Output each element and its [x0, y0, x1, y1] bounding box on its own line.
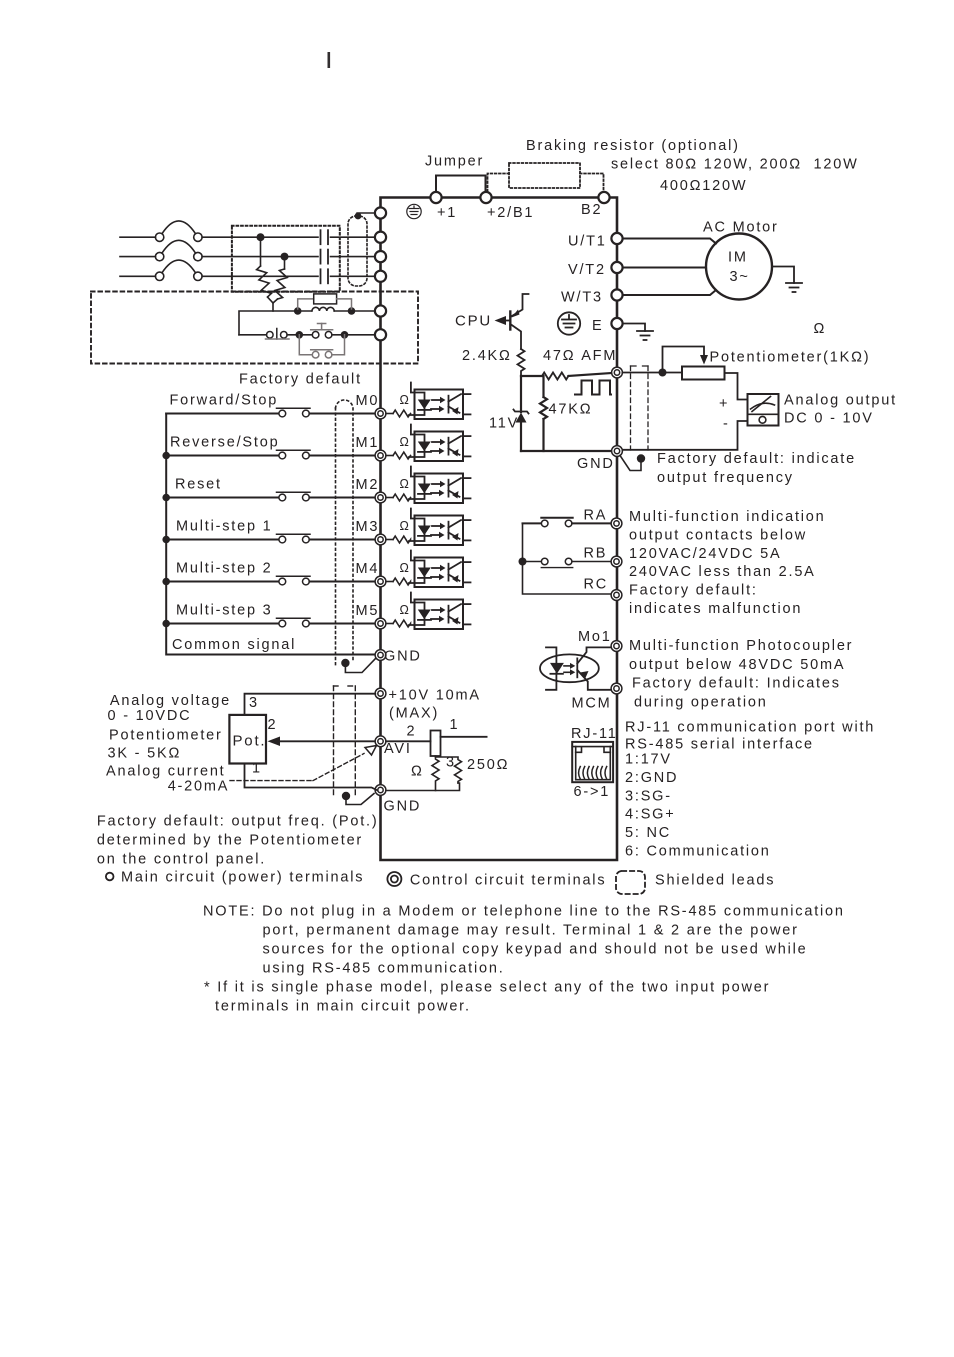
terminal M4 [375, 576, 386, 587]
wire [166, 623, 279, 625]
braking resistor leads [488, 174, 510, 194]
breaker pole L2 [155, 252, 163, 260]
svg-text:400Ω120W: 400Ω120W [660, 178, 747, 194]
svg-text:M2: M2 [356, 477, 380, 493]
terminal U/T1 [611, 233, 622, 244]
RB contact [523, 561, 542, 563]
optocoupler M0 [386, 383, 471, 420]
svg-text:AVI: AVI [384, 741, 412, 757]
contactor terminal lower [375, 329, 386, 340]
svg-text:U/T1: U/T1 [568, 234, 607, 250]
svg-text:Braking resistor (optional): Braking resistor (optional) [526, 138, 740, 154]
terminal E [611, 318, 622, 329]
wire [166, 455, 279, 457]
svg-text:sources for the optional copy: sources for the optional copy keypad and… [263, 942, 808, 958]
capacitor L3 [320, 269, 322, 283]
square wave [575, 381, 611, 395]
bottom wire to GND [386, 783, 460, 791]
svg-text:Common signal: Common signal [172, 637, 296, 653]
input phase line L3 [120, 275, 156, 277]
shield drain at GND right [620, 456, 641, 471]
svg-text:Ω: Ω [400, 477, 411, 491]
terminal RB [611, 556, 622, 567]
svg-text:Factory default: Factory default [239, 372, 362, 388]
svg-text:during operation: during operation [634, 694, 768, 710]
svg-text:Multi-step 3: Multi-step 3 [176, 603, 273, 619]
input phase line L2 [120, 256, 156, 258]
jumper wire [436, 176, 486, 192]
svg-text:Multi-step 2: Multi-step 2 [176, 561, 273, 577]
svg-text:RS-485 serial interface: RS-485 serial interface [625, 737, 814, 753]
svg-text:3:SG-: 3:SG- [625, 788, 672, 804]
svg-text:select 80Ω 120W, 200Ω 120W: select 80Ω 120W, 200Ω 120W [611, 157, 859, 173]
terminal RC [611, 590, 622, 601]
wire V/T2 to motor [623, 267, 706, 269]
terminal +1 [430, 192, 441, 203]
svg-text:M4: M4 [356, 561, 380, 577]
optocoupler M1 [386, 425, 471, 462]
svg-text:MCM: MCM [572, 696, 612, 712]
svg-text:Ω: Ω [400, 603, 411, 617]
svg-text:RB: RB [584, 546, 608, 562]
svg-text:RC: RC [584, 577, 609, 593]
svg-text:Reset: Reset [175, 477, 222, 493]
wire to terminal L3 [331, 275, 376, 277]
svg-text:using RS-485 communication.: using RS-485 communication. [263, 961, 505, 977]
svg-text:Forward/Stop: Forward/Stop [170, 393, 279, 409]
terminal M5 [375, 618, 386, 629]
svg-text:Factory default: indicate: Factory default: indicate [657, 451, 856, 467]
svg-text:Potentiometer(1KΩ): Potentiometer(1KΩ) [710, 350, 871, 366]
legend shielded leads [616, 871, 645, 894]
open arrow to AVI [365, 746, 377, 756]
AVI input resistor network [386, 740, 431, 742]
wire to terminal L2 [331, 256, 376, 258]
svg-text:4:SG+: 4:SG+ [625, 807, 676, 823]
svg-text:on the control panel.: on the control panel. [97, 852, 266, 868]
svg-text:3: 3 [249, 695, 259, 711]
svg-text:+1: +1 [437, 205, 457, 221]
photocoupler Mo1 [540, 654, 599, 682]
optocoupler M3 [386, 509, 471, 546]
shield tube analog [334, 686, 356, 798]
stop button NC [239, 334, 267, 336]
wire to capacitor L2 [202, 256, 318, 258]
svg-text:terminals in main circuit powe: terminals in main circuit power. [215, 999, 471, 1015]
capacitor L1 [320, 230, 322, 244]
svg-text:output below 48VDC 50mA: output below 48VDC 50mA [629, 657, 845, 673]
wire [166, 497, 279, 499]
svg-text:CPU: CPU [455, 313, 492, 330]
svg-text:Factory default: Indicates: Factory default: Indicates [632, 676, 841, 692]
contactor coil [312, 307, 334, 311]
svg-text:Mo1: Mo1 [578, 629, 612, 645]
svg-text:output contacts below: output contacts below [629, 527, 807, 543]
run junction dots [296, 331, 304, 339]
zener 11V [520, 376, 522, 412]
relay rail [523, 523, 612, 594]
input terminal L3 [375, 271, 386, 282]
wire to capacitor L3 [202, 275, 318, 277]
svg-text:11V: 11V [489, 416, 519, 432]
optocoupler M5 [386, 593, 471, 630]
rail junction dot [162, 452, 170, 460]
svg-text:Ω: Ω [400, 519, 411, 533]
svg-text:RA: RA [584, 508, 608, 524]
analog output meter [748, 394, 779, 426]
svg-text:E: E [592, 318, 603, 334]
switch M1 [279, 452, 286, 459]
svg-text:3: 3 [446, 755, 456, 771]
svg-text:GND: GND [384, 799, 422, 815]
wire to terminal L1 [331, 236, 376, 238]
braking resistor (optional) dotted box [509, 163, 580, 188]
wire [166, 581, 279, 583]
junction dot L1 [257, 233, 265, 241]
pot pin2 arrow wire from AVI [279, 740, 375, 742]
input phase line L1 [120, 236, 156, 238]
svg-text:Ω: Ω [400, 393, 411, 407]
terminal Mo1 [611, 641, 622, 652]
svg-text:6->1: 6->1 [574, 784, 611, 800]
rail junction dot [162, 536, 170, 544]
svg-text:(MAX): (MAX) [389, 706, 439, 722]
potentiometer wiper bracket [663, 347, 705, 373]
svg-text:NOTE: Do not plug in a Modem o: NOTE: Do not plug in a Modem or telephon… [203, 904, 845, 920]
capacitor L2 [320, 250, 322, 264]
wire meter to gnd [622, 421, 747, 450]
terminal M1 [375, 450, 386, 461]
svg-text:3~: 3~ [730, 269, 750, 285]
motor ground [772, 267, 794, 284]
svg-text:M0: M0 [356, 393, 380, 409]
rail junction dot [162, 578, 170, 586]
svg-text:-: - [723, 416, 730, 432]
Pot box [229, 715, 266, 764]
input terminal L1 [375, 232, 386, 243]
rail junction dot [162, 494, 170, 502]
transistor Q1 [509, 312, 511, 330]
terminal +2/B1 [480, 192, 491, 203]
svg-text:RJ-11: RJ-11 [571, 726, 618, 742]
svg-text:Ω: Ω [814, 321, 827, 337]
optocoupler M2 [386, 467, 471, 504]
svg-text:RJ-11 communication port with: RJ-11 communication port with [625, 720, 875, 736]
page mark bar [328, 52, 331, 68]
svg-text:47KΩ: 47KΩ [549, 402, 593, 418]
contactor terminal upper [375, 305, 386, 316]
E ground [623, 324, 645, 332]
coil junction dots [294, 307, 302, 315]
breaker pole L3 [155, 272, 163, 280]
svg-text:Jumper: Jumper [425, 154, 484, 170]
svg-text:port, permanent damage may res: port, permanent damage may result. Termi… [263, 923, 799, 939]
resistor 47K [542, 376, 544, 397]
svg-text:Multi-step 1: Multi-step 1 [176, 519, 273, 535]
factory default dash-dot box [91, 292, 418, 364]
svg-text:Pot.: Pot. [233, 733, 267, 750]
coil wire [239, 311, 312, 335]
wire to terminal [309, 497, 375, 499]
svg-text:4-20mA: 4-20mA [168, 779, 230, 795]
wire [166, 413, 279, 415]
terminal W/T3 [611, 289, 622, 300]
resistor to gnd (ohm) [432, 756, 439, 791]
svg-text:6: Communication: 6: Communication [625, 844, 771, 860]
svg-text:Analog output: Analog output [784, 393, 897, 409]
legend control circuit [387, 872, 401, 886]
EMI filter dotted box [232, 226, 340, 292]
svg-text:Ω: Ω [400, 561, 411, 575]
svg-text:output frequency: output frequency [657, 470, 794, 486]
PE symbol at E [558, 312, 580, 334]
switch M5 [279, 620, 286, 627]
svg-text:250Ω: 250Ω [467, 757, 509, 773]
svg-text:2:GND: 2:GND [625, 770, 678, 786]
wire to terminal [309, 581, 375, 583]
optocoupler M4 [386, 551, 471, 588]
run button NO [287, 334, 312, 336]
svg-text:IM: IM [728, 250, 748, 266]
wire to terminal [309, 413, 375, 415]
pot pin3 wire to +10V [245, 694, 376, 715]
svg-text:120VAC/24VDC 5A: 120VAC/24VDC 5A [629, 546, 781, 562]
varistor 1 [260, 237, 262, 266]
terminal MCM [611, 683, 622, 694]
switch M2 [279, 494, 286, 501]
junction dot L2 [281, 253, 289, 261]
switch M4 [279, 578, 286, 585]
shield dashes at AFM [631, 365, 649, 367]
inverter outline [381, 198, 618, 861]
svg-text:Factory default:: Factory default: [629, 583, 758, 599]
svg-text:Shielded leads: Shielded leads [655, 873, 775, 889]
svg-text:+2/B1: +2/B1 [487, 205, 534, 221]
wire to terminal [309, 623, 375, 625]
terminal M0 [375, 408, 386, 419]
wire to terminal [309, 455, 375, 457]
svg-text:Multi-function Photocoupler: Multi-function Photocoupler [629, 638, 853, 654]
resistor R box parallel to coil [298, 294, 352, 309]
varistor 2 [284, 257, 286, 269]
svg-text:GND: GND [384, 649, 422, 665]
svg-text:AC Motor: AC Motor [703, 220, 779, 236]
terminal V/T2 [611, 262, 622, 273]
terminal B2 [598, 192, 609, 203]
terminal AVI [375, 736, 386, 747]
svg-text:GND: GND [577, 456, 615, 472]
svg-text:Reverse/Stop: Reverse/Stop [170, 435, 279, 451]
svg-text:5: NC: 5: NC [625, 825, 671, 841]
svg-text:Control circuit terminals: Control circuit terminals [410, 873, 607, 889]
svg-text:DC 0 - 10V: DC 0 - 10V [784, 411, 874, 427]
svg-text:Potentiometer: Potentiometer [109, 728, 223, 744]
legend main circuit [106, 873, 114, 881]
svg-text:+10V 10mA: +10V 10mA [389, 688, 481, 704]
resistor 47ohm [542, 373, 568, 380]
svg-text:2.4KΩ: 2.4KΩ [462, 348, 512, 364]
svg-text:1: 1 [252, 761, 262, 777]
left rail [166, 414, 376, 655]
svg-text:1: 1 [450, 717, 460, 733]
svg-text:0 - 10VDC: 0 - 10VDC [108, 708, 192, 724]
terminal M2 [375, 492, 386, 503]
terminal GND (digital) [375, 650, 386, 661]
4-20mA dashed path [230, 780, 313, 782]
svg-text:M1: M1 [356, 435, 380, 451]
svg-text:B2: B2 [581, 202, 602, 218]
svg-text:* If it is single phase model,: * If it is single phase model, please se… [204, 980, 770, 996]
svg-text:indicates malfunction: indicates malfunction [629, 601, 802, 617]
svg-text:Ω: Ω [411, 764, 424, 780]
svg-text:+: + [719, 396, 729, 412]
svg-text:M3: M3 [356, 519, 380, 535]
shield drain common [341, 659, 349, 667]
terminal GND right [612, 446, 623, 457]
wire W/T3 to motor [623, 290, 716, 295]
svg-text:3K - 5KΩ: 3K - 5KΩ [108, 746, 182, 762]
wire pot to meter [725, 373, 748, 400]
svg-text:determined by the Potentiomete: determined by the Potentiometer [97, 833, 363, 849]
rail junction dot [162, 620, 170, 628]
RA contact [523, 522, 542, 524]
svg-text:Analog voltage: Analog voltage [110, 693, 231, 709]
wire to 47ohm [521, 375, 542, 377]
resistor 2.4K [518, 349, 525, 376]
terminal RA [611, 518, 622, 529]
wire U/T1 to motor [623, 239, 716, 244]
terminal GND (analog) [375, 785, 386, 796]
svg-text:Multi-function indication: Multi-function indication [629, 509, 826, 525]
aux contact branch [299, 335, 344, 358]
gnd return wire [521, 450, 612, 452]
varistor junction to coil wire [272, 303, 274, 311]
shielded tube at input [348, 216, 367, 286]
potentiometer body [682, 367, 725, 380]
PE symbol small [407, 204, 421, 218]
svg-text:Main circuit (power) terminals: Main circuit (power) terminals [121, 870, 364, 886]
input terminal L2 [375, 251, 386, 262]
svg-text:W/T3: W/T3 [561, 290, 603, 306]
svg-text:2: 2 [407, 724, 417, 740]
svg-text:1:17V: 1:17V [625, 752, 672, 768]
AC motor [706, 234, 772, 300]
terminal M3 [375, 534, 386, 545]
shield terminal [375, 207, 386, 218]
wire [166, 539, 279, 541]
shield drain wire [357, 212, 375, 214]
resistor 250 ohm [436, 757, 462, 783]
svg-text:2: 2 [268, 717, 278, 733]
terminal AFM [612, 367, 623, 378]
pot pin1 wire to GND [245, 764, 378, 791]
svg-text:Ω: Ω [400, 435, 411, 449]
switch M3 [279, 536, 286, 543]
svg-text:M5: M5 [356, 603, 380, 619]
breaker pole L1 [155, 233, 163, 241]
shield drain analog [342, 792, 350, 800]
svg-text:V/T2: V/T2 [568, 262, 606, 278]
svg-text:Factory default: output freq.: Factory default: output freq. (Pot.) [97, 814, 379, 830]
shield tube M rows [336, 400, 354, 667]
wire AFM to pot [622, 372, 682, 374]
svg-text:240VAC less than 2.5A: 240VAC less than 2.5A [629, 564, 816, 580]
wire to capacitor L1 [202, 236, 318, 238]
terminal +10V [375, 688, 386, 699]
svg-text:Analog current: Analog current [106, 764, 226, 780]
switch M0 [279, 410, 286, 417]
svg-text:47Ω AFM: 47Ω AFM [543, 348, 617, 364]
wire to terminal [309, 539, 375, 541]
